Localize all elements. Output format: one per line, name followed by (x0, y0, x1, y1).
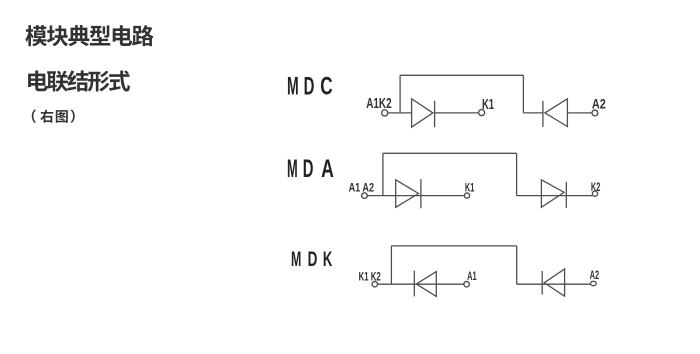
svg-text:A1K2: A1K2 (366, 94, 391, 112)
svg-text:M: M (287, 73, 299, 100)
svg-text:K1 K2: K1 K2 (359, 271, 381, 284)
svg-text:M: M (291, 247, 301, 272)
svg-text:D: D (304, 73, 315, 101)
svg-text:A: A (321, 155, 334, 183)
svg-text:D: D (308, 247, 318, 271)
svg-text:M: M (287, 155, 298, 183)
svg-text:K2: K2 (591, 181, 601, 194)
svg-text:K1: K1 (465, 182, 475, 195)
svg-text:K: K (323, 247, 333, 271)
svg-text:A1 A2: A1 A2 (349, 181, 375, 195)
svg-text:C: C (320, 72, 332, 100)
svg-text:A2: A2 (592, 96, 606, 112)
svg-text:D: D (303, 156, 314, 183)
svg-text:K1: K1 (482, 96, 494, 113)
svg-text:A1: A1 (467, 270, 477, 283)
svg-text:A2: A2 (590, 270, 600, 283)
